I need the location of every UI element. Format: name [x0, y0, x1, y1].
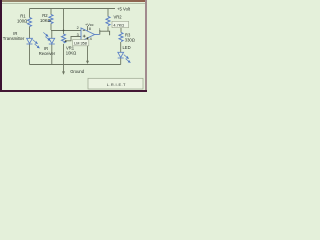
background: [0, 0, 147, 92]
svg-text:+5 Volt: +5 Volt: [117, 7, 131, 12]
wire LED1 to ground bus: [29, 44, 31, 65]
LED2 indicator: [118, 52, 124, 58]
wire 4.7K box to R3: [120, 28, 122, 33]
potentiometer VR1: [62, 34, 66, 43]
svg-text:4.7KΩ: 4.7KΩ: [113, 23, 124, 27]
svg-text:Ground: Ground: [70, 69, 85, 74]
wire VR1 wiper to pin3: [66, 37, 81, 41]
pin 4 ground arrowhead: [86, 61, 89, 64]
ground stub: [63, 65, 65, 72]
wire VR1 to ground bus: [63, 44, 65, 65]
wire R1 branch vertical: [29, 9, 31, 18]
svg-text:2: 2: [77, 26, 79, 30]
wire top +5V rail: [30, 8, 116, 10]
svg-text:LED: LED: [123, 45, 131, 50]
svg-text:+Vcc: +Vcc: [85, 23, 94, 27]
resistor R1: [28, 18, 32, 27]
output net wire (step): [100, 31, 110, 35]
svg-text:100Ω: 100Ω: [17, 19, 27, 24]
pin 4 junction dot: [87, 37, 89, 39]
wire R1 to LED1: [29, 27, 31, 39]
wire node to pin2: [51, 30, 81, 32]
resistor R3: [119, 33, 123, 42]
pin 8 stub: [87, 26, 89, 31]
svg-text:330Ω: 330Ω: [125, 37, 135, 42]
opamp output stub: [95, 34, 100, 36]
L.R.I.E.T title box: [88, 78, 143, 89]
svg-text:Receiver: Receiver: [39, 51, 56, 56]
LM 358 label box: [73, 40, 89, 46]
wire R3 to LED2: [120, 42, 122, 52]
svg-text:10KΩ: 10KΩ: [40, 18, 51, 23]
IR receiver incoming arrows: [43, 32, 50, 40]
wire LED2 to ground bus: [120, 58, 122, 65]
junction node pin2/VR1: [63, 30, 65, 32]
wire VR2 branch vertical: [107, 9, 109, 17]
preset VR2: [106, 17, 110, 26]
svg-text:8: 8: [89, 27, 91, 31]
svg-text:VR2: VR2: [114, 14, 123, 19]
IR transmitter LED D1: [27, 38, 33, 44]
svg-text:10KΩ: 10KΩ: [66, 50, 76, 55]
svg-text:LM 358: LM 358: [74, 41, 87, 45]
svg-text:L.R.I.E.T: L.R.I.E.T: [107, 82, 126, 87]
LED2 emission arrows: [124, 55, 130, 63]
page edge line: [2, 3, 145, 5]
ground stub arrowhead: [62, 71, 65, 74]
svg-text:4: 4: [90, 37, 92, 41]
ground bus: [30, 64, 121, 66]
IR transmitter emission arrows: [33, 40, 40, 48]
svg-text:3: 3: [77, 33, 79, 37]
wire R2 to node: [50, 24, 52, 31]
svg-text:1: 1: [99, 28, 101, 32]
wire R2 branch vertical: [50, 9, 52, 15]
VR1 wiper dot: [65, 40, 67, 42]
IR receiver photodiode D2: [49, 38, 55, 44]
svg-text:Transmitter: Transmitter: [3, 36, 25, 41]
4.7Kohm label box: [112, 21, 129, 27]
wire node down to photodiode: [51, 31, 53, 39]
opamp plus sign: [83, 35, 86, 38]
frame borders: [0, 0, 147, 2]
resistor R2: [49, 15, 53, 24]
op-amp U1 triangle: [81, 28, 95, 41]
wire pin 4 to ground: [87, 38, 89, 61]
wire photodiode to ground bus: [51, 44, 53, 65]
opamp minus sign: [83, 29, 85, 31]
wire VR2 bottom to output net: [107, 27, 109, 32]
wire VR1 branch vertical: [63, 9, 65, 35]
